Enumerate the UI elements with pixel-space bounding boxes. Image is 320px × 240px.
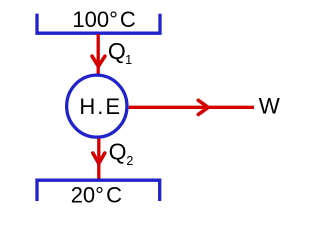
svg-text:Q: Q <box>108 38 126 64</box>
wire Q2 arrow shaft (H.E to cold reservoir) <box>97 139 100 181</box>
wire Q1 arrow shaft (hot reservoir to H.E) <box>97 34 100 74</box>
svg-text:Q: Q <box>109 138 127 164</box>
heat engine circle H.E <box>67 75 127 137</box>
svg-text:H.E: H.E <box>79 94 122 119</box>
svg-text:1: 1 <box>125 53 132 67</box>
hot reservoir bracket (100C source) <box>37 14 160 34</box>
Q1 arrowhead <box>92 56 105 66</box>
cold reservoir bracket (20C sink) <box>37 180 160 201</box>
W arrowhead <box>198 100 208 114</box>
Q2 arrowhead <box>93 153 105 163</box>
svg-text:100°C: 100°C <box>72 7 135 32</box>
wire W arrow shaft (H.E to W output) <box>129 106 254 109</box>
svg-text:20°C: 20°C <box>71 183 122 208</box>
svg-text:W: W <box>259 94 280 119</box>
svg-text:2: 2 <box>126 154 133 168</box>
